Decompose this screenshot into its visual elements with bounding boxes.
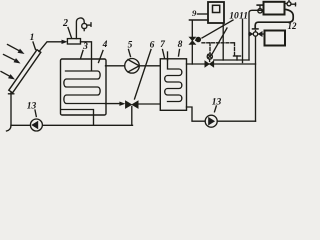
svg-text:8: 8 xyxy=(178,40,183,50)
wire pump5 to tank7 xyxy=(139,65,160,67)
dashed drop to valve11 xyxy=(209,43,211,54)
svg-text:2: 2 xyxy=(62,18,68,29)
svg-text:6: 6 xyxy=(150,41,155,51)
label 4 xyxy=(102,40,108,50)
wire collector top to box2 xyxy=(39,42,64,52)
sensor foot xyxy=(234,56,241,60)
wire tank7 outlet to pump 13 right xyxy=(187,107,206,121)
svg-text:1: 1 xyxy=(30,33,35,43)
label 11 xyxy=(239,12,248,22)
svg-text:12: 12 xyxy=(288,21,298,31)
label 13 left xyxy=(27,101,37,111)
leader for label 11 vertical xyxy=(242,20,244,63)
label 2 xyxy=(62,18,68,29)
valve on heater branch xyxy=(249,31,265,38)
air separator box 2 xyxy=(67,39,80,44)
svg-text:10: 10 xyxy=(229,12,239,22)
wire tank3 outlet to valve 6 with arrow xyxy=(106,102,126,106)
leader for right label 13 xyxy=(215,106,217,112)
tank 7 xyxy=(160,59,186,111)
leader for label 4 xyxy=(99,51,104,63)
wire valve6 to tank7 xyxy=(138,103,160,105)
valve 10 xyxy=(189,37,196,44)
dashed control line xyxy=(202,42,235,44)
control box 9 xyxy=(208,2,224,23)
leader for label 1 xyxy=(33,42,36,50)
box9 bottom pipe xyxy=(190,19,209,21)
valve10 riser xyxy=(191,21,193,65)
leader for label 6 xyxy=(135,50,152,100)
label 3 xyxy=(82,42,88,52)
dashed drop to sensor xyxy=(234,43,236,55)
wire collector riser xyxy=(11,93,30,126)
wire valve6 drop to bottom pipe xyxy=(131,107,133,126)
pump 13 left xyxy=(30,119,42,131)
indicator window of box 9 xyxy=(213,5,220,12)
sun arrow a xyxy=(8,45,25,55)
actuator of valve 10 xyxy=(196,37,201,41)
wire tank3 bottom outlet xyxy=(61,110,94,126)
valve 11 xyxy=(205,61,214,67)
end bar of return bend xyxy=(253,28,259,30)
leader for label 5 xyxy=(129,50,131,57)
box9 right drop xyxy=(222,24,224,61)
label 13 right xyxy=(212,98,222,108)
coil 8 entry stub xyxy=(167,52,169,60)
leader for left label 13 xyxy=(35,110,36,117)
label 9 xyxy=(192,8,197,18)
solar collector 1 xyxy=(9,50,41,94)
leader for label 8 xyxy=(179,50,180,57)
label 5 xyxy=(128,41,133,51)
heater box 12 upper xyxy=(264,2,285,15)
wire box2 to tank3 coil xyxy=(81,42,92,59)
leader for label 10 xyxy=(202,20,233,38)
arrow into box2 xyxy=(62,40,68,44)
label 10 xyxy=(229,12,239,22)
label 7 xyxy=(160,40,166,50)
leader for label 9 xyxy=(198,13,208,15)
return bend from heater 12 upper xyxy=(255,9,293,28)
sun arrow c xyxy=(1,72,15,80)
pump 13 right xyxy=(205,115,217,127)
wire pump13 right to riser xyxy=(217,120,255,122)
leader for label 7 xyxy=(163,50,165,59)
heater box 12 lower xyxy=(265,31,286,46)
label 8 xyxy=(178,40,183,50)
leader for label 3 xyxy=(81,51,84,59)
heating riser down xyxy=(255,36,257,121)
pump 5 xyxy=(125,59,140,74)
wire tank3 to pump5 xyxy=(106,65,125,67)
tank 3 xyxy=(61,59,107,115)
pipe P2 upper return xyxy=(214,59,249,61)
leader diagonal to valve11 xyxy=(212,28,228,55)
label 1 xyxy=(30,33,35,43)
sun arrow b xyxy=(4,55,21,64)
vent pipe with gauge xyxy=(76,18,91,39)
coil 8 xyxy=(165,60,182,102)
tap on heater 12 upper xyxy=(285,1,296,6)
supply riser top xyxy=(249,10,264,60)
heat coil 4 xyxy=(64,59,106,104)
svg-text:4: 4 xyxy=(102,40,108,50)
label 12 xyxy=(288,21,298,31)
label 6 xyxy=(150,41,155,51)
svg-text:11: 11 xyxy=(239,12,248,22)
svg-text:9: 9 xyxy=(192,8,197,18)
actuator of valve 11 xyxy=(207,54,212,62)
air vent on supply xyxy=(257,5,263,13)
valve 6 xyxy=(125,101,138,109)
pipe P1 tank7 to riser xyxy=(187,63,256,65)
bottom pipe left xyxy=(42,124,132,126)
leader for label 2 xyxy=(68,28,72,38)
